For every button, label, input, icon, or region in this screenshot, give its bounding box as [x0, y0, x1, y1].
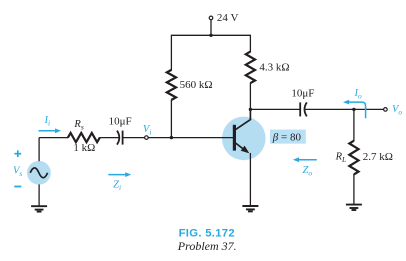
transistor Q1 highlight circle [222, 117, 266, 161]
wire: right branch upper (to 4.3k) [249, 35, 251, 53]
capacitor C2 10uF: straight plate [299, 102, 301, 116]
wire: collector node to output cap [250, 108, 300, 110]
svg-text:1 kΩ: 1 kΩ [73, 142, 95, 154]
label: Zi with arrow [108, 174, 125, 176]
ground: source [31, 206, 47, 211]
label: Zo with arrow [298, 159, 316, 161]
capacitor C1 10uF: curved plate [117, 131, 119, 145]
transistor Q1 emitter lead [236, 143, 248, 152]
wire: input node to Rs [39, 137, 68, 139]
ground: RL [346, 205, 362, 210]
resistor R 560k zigzag [167, 70, 176, 100]
resistor RL 2.7k zigzag [349, 141, 358, 175]
source Vs sine wave [30, 168, 47, 178]
source Vs circle [27, 161, 51, 185]
capacitor C2 10uF: curved plate [305, 102, 307, 116]
resistor Rs 1k zigzag [68, 133, 100, 142]
label box: beta = 80 [270, 130, 306, 144]
ground: emitter [242, 206, 258, 211]
terminal: 24 V supply circle [209, 16, 213, 20]
junction: top rail / 24V [209, 34, 212, 37]
svg-text:Problem 37.: Problem 37. [177, 239, 237, 253]
terminal: Vi circle [145, 136, 149, 140]
junction: output node [352, 108, 355, 111]
transistor Q1 collector lead [236, 109, 251, 130]
junction: collector node [249, 108, 252, 111]
wire: source riser [38, 138, 40, 162]
label: plus sign [14, 150, 21, 157]
wire: output cap to output node [305, 108, 383, 110]
wire: emitter to ground [249, 153, 251, 206]
label: minus sign [14, 186, 21, 188]
svg-text:4.3 kΩ: 4.3 kΩ [259, 61, 289, 73]
transistor Q1 emitter arrowhead [241, 146, 250, 154]
wire: Vi node to base [148, 137, 233, 139]
wire: output node to RL [353, 109, 355, 141]
svg-text:10μF: 10μF [109, 116, 132, 128]
wire: Rs to input cap [100, 137, 119, 139]
wire: top supply rail [171, 34, 250, 36]
wire: RL to ground [353, 174, 355, 204]
wire: source to ground [38, 184, 40, 206]
wire: left branch lower (560k to base node) [170, 100, 172, 138]
resistor 4.3k zigzag [246, 52, 255, 84]
svg-text:2.7 kΩ: 2.7 kΩ [363, 151, 393, 163]
transistor Q1 base bar [233, 125, 236, 151]
wire: input cap to Vi node [123, 137, 145, 139]
junction: base / 560k node [170, 136, 173, 139]
capacitor C1 10uF: straight plate [122, 131, 124, 145]
svg-text:β = 80: β = 80 [272, 131, 302, 143]
terminal: Vo circle [384, 108, 388, 112]
wire: right branch lower (4.3k to collector node) [249, 83, 251, 110]
wire: left branch upper (to 560k) [170, 35, 172, 71]
svg-text:10μF: 10μF [291, 88, 314, 100]
svg-text:FIG. 5.172: FIG. 5.172 [179, 227, 235, 239]
svg-text:24 V: 24 V [217, 12, 239, 24]
wire: 24V riser [210, 20, 212, 36]
svg-text:560 kΩ: 560 kΩ [180, 79, 213, 91]
